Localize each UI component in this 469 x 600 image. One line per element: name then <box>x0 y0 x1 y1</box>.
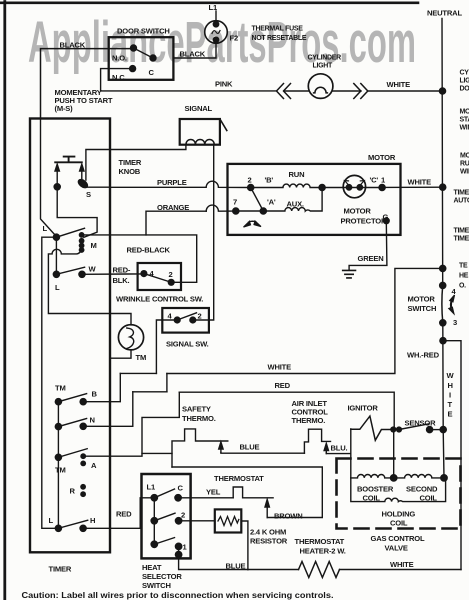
heat selector blade L1-C <box>154 489 174 498</box>
svg-text:DOO: DOO <box>460 86 469 93</box>
svg-text:NEUTRAL: NEUTRAL <box>427 9 462 18</box>
wrinkle control contact 2 <box>168 279 174 285</box>
heat selector mid contact <box>151 518 157 524</box>
holding coil <box>351 478 446 502</box>
svg-text:(M-S): (M-S) <box>55 104 74 113</box>
door switch C contact <box>150 55 156 61</box>
signal switch contact 4 <box>174 317 180 323</box>
svg-text:LIGHT: LIGHT <box>313 63 334 70</box>
wire node L diagonal from black feed <box>41 119 57 237</box>
wire WHITE row right segment <box>167 268 443 373</box>
booster coil <box>351 474 394 477</box>
svg-text:THERMO.: THERMO. <box>292 416 326 425</box>
svg-text:ORANGE: ORANGE <box>157 203 189 212</box>
svg-text:I: I <box>449 391 451 400</box>
wire S to signal coil <box>86 145 186 180</box>
heat selector contact 2 <box>175 518 181 524</box>
wire momentary dot down to M blade <box>57 190 97 238</box>
timer N contact <box>80 423 86 429</box>
svg-text:GAS CONTROL: GAS CONTROL <box>371 534 425 543</box>
timer W contact <box>79 271 85 277</box>
wire WHITE to neutral <box>368 90 443 92</box>
svg-text:W: W <box>89 265 97 274</box>
svg-text:WRINKLE CONTROL SW.: WRINKLE CONTROL SW. <box>116 295 203 304</box>
node run/aux junction <box>319 184 325 190</box>
svg-text:'A': 'A' <box>267 198 276 207</box>
timer N row left contact <box>55 424 61 430</box>
wire ORANGE riser from red-black row <box>146 211 206 235</box>
signal coil box <box>180 119 220 145</box>
svg-text:COIL: COIL <box>420 494 438 503</box>
svg-text:BLACK: BLACK <box>60 41 86 50</box>
svg-text:CYLINDER: CYLINDER <box>308 55 342 62</box>
svg-text:7: 7 <box>233 198 237 207</box>
svg-text:L: L <box>55 283 60 292</box>
svg-text:SWITCH: SWITCH <box>142 581 171 590</box>
svg-text:SECOND: SECOND <box>406 485 438 494</box>
wire resistor to blue row <box>241 521 248 570</box>
svg-text:RUN: RUN <box>289 170 305 179</box>
motor terminal G <box>383 218 389 224</box>
svg-text:L: L <box>49 516 54 525</box>
thermostat heater zigzag <box>299 562 340 578</box>
svg-text:LIG: LIG <box>460 78 469 85</box>
wire WHITE motor to neutral <box>382 186 443 188</box>
svg-text:CYL: CYL <box>460 70 469 77</box>
node ignitor/sensor junction <box>390 426 402 432</box>
second coil <box>394 474 444 477</box>
heat selector chain L1 down <box>153 498 155 545</box>
cylinder light bulb <box>308 74 333 99</box>
svg-text:T: T <box>448 400 453 409</box>
timer A blade <box>58 449 87 458</box>
motor box <box>228 164 401 235</box>
momentary contact arrow right with S blade <box>80 164 84 183</box>
svg-text:M: M <box>91 241 97 250</box>
svg-text:WIN: WIN <box>460 125 469 132</box>
svg-text:2: 2 <box>248 176 252 185</box>
svg-text:R: R <box>70 487 76 496</box>
svg-text:RESISTOR: RESISTOR <box>250 537 288 546</box>
timer A contact stack <box>80 453 86 466</box>
svg-text:SENSOR: SENSOR <box>405 419 437 428</box>
wire A row riser to red row <box>83 392 179 456</box>
heat selector contact 1 <box>175 543 181 549</box>
svg-text:NOT RESETABLE: NOT RESETABLE <box>252 35 307 42</box>
wire chain B to N <box>57 402 59 427</box>
svg-text:W: W <box>447 371 455 380</box>
svg-text:H: H <box>90 516 95 525</box>
svg-text:PINK: PINK <box>215 80 233 89</box>
door switch N.O. contact <box>131 45 137 51</box>
border frame top bar <box>0 1 418 4</box>
svg-text:E: E <box>448 410 453 419</box>
wire riser red-left to white row <box>166 374 168 392</box>
ground symbol <box>343 270 356 278</box>
svg-text:MOTOR: MOTOR <box>368 153 396 162</box>
wire W to wrinkle control 4 <box>82 273 144 275</box>
svg-text:COIL: COIL <box>390 519 408 528</box>
connector chevrons right of cylinder light <box>354 84 368 99</box>
wire blue row to heater <box>248 569 299 571</box>
motor switch blade <box>441 285 444 322</box>
node sensor column junction <box>440 427 446 433</box>
wire chain N to A <box>57 427 59 458</box>
svg-text:2: 2 <box>169 270 173 279</box>
wire RED row <box>133 391 167 393</box>
svg-text:PURPLE: PURPLE <box>157 178 187 187</box>
svg-text:L1: L1 <box>147 483 156 492</box>
wire WHITE row <box>120 372 156 374</box>
thermal fuse F2 <box>205 21 228 44</box>
svg-text:N: N <box>90 416 95 425</box>
svg-text:TIME: TIME <box>454 236 469 243</box>
wrinkle control switch box <box>138 263 181 290</box>
svg-text:RUN: RUN <box>460 161 469 168</box>
svg-text:WH.-RED: WH.-RED <box>407 351 440 360</box>
svg-text:HEATER-2 W.: HEATER-2 W. <box>300 547 346 556</box>
svg-text:SIGNAL: SIGNAL <box>185 104 213 113</box>
safety thermostat element <box>172 429 228 454</box>
wire BROWN loop <box>172 467 322 518</box>
timer M blade <box>56 228 84 237</box>
connector chevrons left of cylinder light <box>277 84 291 99</box>
wire ORANGE hop over signal wire <box>206 205 234 211</box>
wire chain A to H <box>57 457 59 528</box>
wire RED-BLACK wrinkle 2 to M contact <box>82 235 197 282</box>
wire TM bottom into timer box <box>110 350 131 358</box>
svg-text:BLUE: BLUE <box>240 443 260 452</box>
svg-text:WHITE: WHITE <box>268 363 292 372</box>
motor switch top contact <box>440 282 446 288</box>
svg-text:BOOSTER: BOOSTER <box>357 485 394 494</box>
svg-text:MOT: MOT <box>460 153 469 160</box>
svg-text:TE: TE <box>459 263 468 270</box>
svg-text:TM: TM <box>55 384 66 393</box>
svg-text:BROWN: BROWN <box>274 512 303 521</box>
wire YEL C to thermostat <box>178 497 233 499</box>
svg-text:N.C.: N.C. <box>112 73 126 82</box>
motor terminal 1 <box>379 184 385 190</box>
wire heat selector 1 down to blue row <box>179 546 248 569</box>
svg-text:TIME: TIME <box>454 228 469 235</box>
ignitor element <box>351 416 391 440</box>
svg-text:RED-BLACK: RED-BLACK <box>127 246 171 255</box>
timer box <box>30 119 110 553</box>
wire H row RED to heat selector <box>83 498 154 529</box>
svg-text:STA: STA <box>460 117 469 124</box>
wrinkle control contact 4 <box>141 271 147 277</box>
wire WH.-RED column <box>443 323 444 478</box>
timer B blade <box>58 394 86 402</box>
heat selector blade mid-2 <box>154 513 175 521</box>
timer H blade <box>58 520 87 528</box>
motor run winding <box>251 184 322 187</box>
svg-text:S: S <box>86 190 91 199</box>
svg-text:N.O.: N.O. <box>112 54 127 63</box>
door switch N.C. contact <box>130 66 136 72</box>
wire GREEN to ground <box>349 221 387 270</box>
node white loop junction <box>440 338 446 344</box>
svg-text:C: C <box>149 68 155 77</box>
svg-text:'B': 'B' <box>265 176 274 185</box>
svg-text:THERMOSTAT: THERMOSTAT <box>295 537 345 546</box>
wire sensor to column <box>430 429 444 431</box>
wire chevron to bulb <box>284 90 308 92</box>
svg-text:H: H <box>448 381 453 390</box>
wire safety thermo feed <box>142 453 172 467</box>
signal coil windings <box>186 139 214 144</box>
centrifugal switch arc symbol <box>244 221 262 227</box>
svg-text:L1: L1 <box>209 3 218 12</box>
svg-text:SELECTOR: SELECTOR <box>142 572 182 581</box>
wire signal switch 4 to white row <box>156 320 177 373</box>
wire ignitor column <box>350 429 352 478</box>
heat selector contact L1 <box>151 495 157 501</box>
signal switch box <box>162 308 209 333</box>
air inlet control thermostat element <box>304 429 330 453</box>
svg-text:HE: HE <box>459 273 469 280</box>
motor switch swing arrow <box>449 295 455 314</box>
timer motor TM circle <box>118 325 143 350</box>
svg-text:WIN: WIN <box>460 169 469 176</box>
node junction motor white / neutral <box>440 184 446 190</box>
momentary contact arrow left <box>55 164 59 187</box>
door switch box <box>109 37 174 80</box>
svg-text:TM: TM <box>55 466 66 475</box>
resistor box 2.4K <box>215 509 242 532</box>
svg-text:RED: RED <box>116 510 132 519</box>
wire heat selector 2 to resistor <box>179 520 215 522</box>
wire B row to white riser <box>83 373 120 401</box>
heat selector contact 1 lower dot <box>175 551 181 557</box>
svg-text:C: C <box>178 484 184 493</box>
wire signal switch 2 to signal coil <box>193 145 214 320</box>
motor switch contact 3 <box>440 320 446 326</box>
motor terminal 2 <box>248 184 254 190</box>
svg-text:HEAT: HEAT <box>142 563 162 572</box>
contact S blob <box>77 178 89 189</box>
motor aux winding <box>236 188 322 212</box>
heat selector switch box <box>142 474 191 558</box>
signal box flag stroke <box>220 119 227 131</box>
wire red junction down to booster junction <box>393 430 395 478</box>
svg-text:MOTOR: MOTOR <box>408 295 436 304</box>
wire BLACK from node to door switch N.O. <box>41 49 134 119</box>
wire RED row right segment <box>179 392 394 429</box>
svg-text:MOTOR: MOTOR <box>344 207 372 216</box>
wire N.C. loop to PINK row <box>101 69 277 91</box>
wire L1 lead into fuse <box>215 11 217 21</box>
thermostat arrow contact <box>265 500 269 518</box>
svg-text:THERMAL FUSE: THERMAL FUSE <box>252 26 304 33</box>
push-to-start button symbol <box>55 157 82 163</box>
svg-text:SIGNAL SW.: SIGNAL SW. <box>166 340 209 349</box>
svg-text:G: G <box>383 213 389 222</box>
heat selector blade bottom-1 <box>154 538 174 545</box>
svg-text:KNOB: KNOB <box>119 167 141 176</box>
svg-text:2: 2 <box>198 312 202 321</box>
timer B row left contact <box>55 399 61 405</box>
svg-text:WHITE: WHITE <box>408 178 432 187</box>
svg-text:IGNITOR: IGNITOR <box>348 404 379 413</box>
svg-text:VALVE: VALVE <box>385 544 408 553</box>
timer A row left contact <box>55 454 61 460</box>
sensor blade <box>399 424 429 430</box>
node second coil right <box>441 475 447 481</box>
motor terminal 7 <box>233 208 239 214</box>
timer B contact <box>80 399 86 405</box>
hop of M rail over L vertical <box>48 249 131 325</box>
timer M contact stack <box>79 232 85 253</box>
resistor zigzag <box>218 517 239 526</box>
signal switch contact 2 <box>190 317 196 323</box>
wire fuse bottom to door switch C <box>174 43 216 58</box>
border frame left bar <box>3 2 6 600</box>
svg-text:TM: TM <box>136 353 147 362</box>
svg-text:BLK.: BLK. <box>113 276 130 285</box>
signal switch blade <box>177 313 196 320</box>
timer R contact stack <box>80 484 86 497</box>
heat selector bottom contact <box>151 541 157 547</box>
wrinkle control blade <box>144 274 171 283</box>
node junction white/neutral <box>440 265 446 271</box>
svg-text:A: A <box>91 461 97 470</box>
gas control valve dashed box <box>337 459 461 529</box>
node junction cylinder light / neutral <box>439 88 445 94</box>
svg-text:WHITE: WHITE <box>390 560 414 569</box>
sensor right contact <box>427 427 433 433</box>
svg-text:TIME: TIME <box>454 190 469 197</box>
svg-text:WHITE: WHITE <box>387 80 411 89</box>
wire L feed left and down to H row <box>42 237 59 528</box>
svg-text:TIMER: TIMER <box>119 158 142 167</box>
svg-text:2.4 K OHM: 2.4 K OHM <box>250 528 286 537</box>
heat selector contact C <box>175 495 181 501</box>
svg-text:PROTECTOR: PROTECTOR <box>341 217 387 226</box>
motor protector <box>343 175 365 197</box>
wire protector to terminal 1 <box>322 187 382 189</box>
svg-text:BLUE: BLUE <box>226 562 246 571</box>
svg-text:'C': 'C' <box>370 176 379 185</box>
svg-text:BLU.: BLU. <box>331 444 348 453</box>
timer W row left contact <box>53 271 59 277</box>
wire WHITE heater to white loop <box>340 569 462 571</box>
motor blade 2 to A <box>251 188 264 212</box>
svg-text:SWITCH: SWITCH <box>408 304 437 313</box>
safety thermostat arrow contact <box>219 442 223 452</box>
wire NEUTRAL vertical <box>441 19 444 286</box>
svg-text:DOOR SWITCH: DOOR SWITCH <box>117 27 170 36</box>
timer H contact <box>80 525 86 531</box>
svg-text:B: B <box>92 390 98 399</box>
svg-text:GREEN: GREEN <box>358 254 384 263</box>
svg-text:RED: RED <box>275 381 291 390</box>
label WHITE vertical <box>447 371 455 419</box>
svg-text:AUTO: AUTO <box>454 198 469 205</box>
svg-text:MOT: MOT <box>460 109 469 116</box>
svg-text:SAFETY: SAFETY <box>182 405 211 414</box>
svg-text:F2: F2 <box>230 34 238 43</box>
wire bulb to chevrons right <box>333 90 361 92</box>
wire PURPLE with hop over signal wire <box>84 181 251 187</box>
svg-text:L: L <box>43 224 48 233</box>
door switch blade N.O. to C <box>134 48 154 58</box>
wire BLUE safety to air inlet <box>221 451 305 454</box>
timer W blade <box>56 267 84 274</box>
svg-text:Caution: Label all wires prior: Caution: Label all wires prior to discon… <box>22 590 334 600</box>
svg-text:BLACK: BLACK <box>180 50 206 59</box>
node booster/second junction <box>391 475 397 481</box>
svg-text:HOLDING: HOLDING <box>382 510 416 519</box>
svg-text:3: 3 <box>453 318 457 327</box>
svg-text:TIMER: TIMER <box>49 565 72 574</box>
air inlet thermostat arrow contact <box>324 443 328 453</box>
timer H row left contact <box>55 525 61 531</box>
momentary contact dot <box>54 184 60 190</box>
wire BLU to ignitor column <box>326 452 351 455</box>
svg-text:COIL: COIL <box>363 494 381 503</box>
wire L node down to W contact with hop <box>55 240 57 274</box>
wire white loop right side <box>443 341 461 570</box>
motor aux contact <box>260 208 266 214</box>
svg-text:2: 2 <box>181 511 185 520</box>
svg-text:THERMO.: THERMO. <box>182 414 216 423</box>
cycling thermostat element <box>233 487 273 498</box>
svg-text:O.: O. <box>459 283 466 290</box>
svg-text:THERMOSTAT: THERMOSTAT <box>214 474 264 483</box>
node L <box>53 234 59 240</box>
timer N blade <box>58 419 86 427</box>
svg-text:AUX.: AUX. <box>287 200 304 209</box>
svg-text:YEL: YEL <box>206 488 221 497</box>
wire N row to red riser <box>83 392 133 427</box>
svg-text:RED-: RED- <box>113 266 131 275</box>
